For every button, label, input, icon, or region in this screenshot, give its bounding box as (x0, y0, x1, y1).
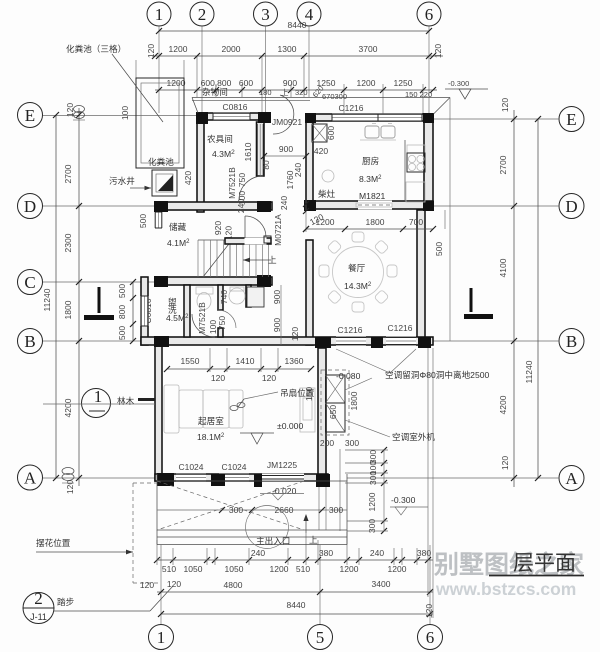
svg-text:8440: 8440 (288, 20, 307, 30)
level -0.300 top right (445, 79, 488, 99)
kitchen counter right with stove (405, 140, 425, 202)
svg-text:420: 420 (314, 146, 328, 156)
wall washroom partition 1 (184, 285, 190, 337)
wall B-axis with windows C1216 x2 (141, 337, 433, 346)
axis line A horizontal (43, 477, 559, 479)
wall chunk left of JM1225 (254, 474, 262, 487)
svg-text:300: 300 (345, 438, 359, 448)
washbasin circle (229, 287, 245, 304)
dim line corridor x306 (303, 200, 325, 232)
svg-text:120: 120 (65, 480, 75, 494)
svg-text:380: 380 (319, 548, 333, 558)
svg-text:B: B (566, 332, 577, 351)
wall C-axis (155, 277, 272, 285)
axis bubble A left (18, 465, 43, 490)
level mark 0.000 living (240, 421, 303, 444)
title first floor plan (489, 551, 584, 576)
svg-text:670300: 670300 (322, 92, 347, 101)
axis bubble 6 bottom (418, 625, 443, 650)
porch outline (157, 474, 347, 530)
flower bed dashed area (133, 483, 161, 583)
label flower position with arrow (36, 537, 133, 554)
svg-text:JM0921: JM0921 (272, 117, 303, 127)
wall washroom partition 3 (246, 285, 251, 307)
svg-text:600: 600 (326, 126, 336, 140)
svg-text:6: 6 (425, 5, 434, 24)
svg-text:-0.300: -0.300 (391, 495, 416, 505)
svg-text:500: 500 (117, 326, 127, 340)
svg-text:J-11: J-11 (30, 612, 47, 622)
label AC hole (385, 369, 490, 380)
septic tank (112, 54, 184, 168)
dim row 8440 bottom (158, 600, 434, 618)
axis bubble 1 bottom (149, 625, 174, 650)
axis bubble C left (18, 270, 43, 295)
svg-text:300: 300 (368, 471, 378, 485)
svg-text:3400: 3400 (372, 579, 391, 589)
dim chain right floors (498, 98, 517, 487)
column B dining-left (315, 337, 331, 348)
svg-text:1200: 1200 (388, 564, 407, 574)
svg-text:500: 500 (117, 284, 127, 298)
svg-text:2: 2 (198, 5, 207, 24)
stair up arrow (243, 255, 277, 265)
kitchen sink (360, 124, 396, 141)
svg-text:240: 240 (370, 548, 384, 558)
svg-text:化粪池（三格）: 化粪池（三格） (66, 43, 126, 54)
downpipe symbol A (62, 468, 74, 484)
right step lines (347, 521, 388, 531)
steps leader line (54, 586, 173, 611)
svg-text:4800: 4800 (224, 580, 243, 590)
svg-text:-0.300: -0.300 (448, 79, 469, 88)
svg-text:A: A (565, 469, 578, 488)
svg-text:D: D (24, 197, 36, 216)
AC dashed surround (321, 370, 349, 435)
svg-text:100: 100 (208, 320, 218, 334)
apron line around building top (192, 98, 450, 342)
stair enclosure wall with door M0721A (225, 216, 271, 245)
svg-text:C1024: C1024 (178, 462, 203, 472)
washroom door arc (192, 314, 215, 337)
AC hole mark left wall (138, 398, 155, 401)
axis bubble D right (559, 194, 584, 219)
column C axis3 (257, 275, 271, 287)
svg-text:320: 320 (295, 88, 308, 97)
svg-text:层平面: 层平面 (513, 551, 576, 575)
svg-text:1610: 1610 (243, 142, 253, 161)
svg-text:1: 1 (155, 5, 164, 24)
shower cabinet box (247, 287, 264, 307)
axis bubble 6 top (417, 2, 441, 26)
wall dining right (417, 210, 425, 341)
dim row 4800 3400 (157, 579, 433, 595)
dim chain left 500 800 500 (117, 279, 136, 344)
svg-text:3: 3 (261, 5, 270, 24)
svg-text:5: 5 (316, 628, 325, 647)
wall kitchen right (424, 114, 433, 210)
downpipe symbol E (73, 106, 85, 121)
svg-text:800: 800 (117, 305, 127, 319)
svg-text:380: 380 (417, 548, 431, 558)
svg-text:-0.080: -0.080 (336, 371, 361, 381)
septic extension verticals (136, 60, 184, 78)
column A left (157, 473, 174, 486)
toilet cell fixtures (196, 287, 213, 310)
axis line 1 vertical (159, 26, 161, 624)
svg-text:1360: 1360 (285, 356, 304, 366)
svg-text:2700: 2700 (498, 155, 508, 174)
svg-text:1300: 1300 (278, 44, 297, 54)
svg-text:空调留洞Φ80洞中离地2500: 空调留洞Φ80洞中离地2500 (385, 369, 490, 380)
axis bubble E right (559, 107, 584, 132)
svg-text:农具间: 农具间 (207, 133, 233, 144)
dim 750 100 toolroom door vertical (237, 173, 247, 205)
column D kitchen-right (423, 201, 434, 211)
svg-text:污水井: 污水井 (109, 175, 135, 186)
svg-text:JM1225: JM1225 (267, 460, 298, 470)
AC outdoor units (326, 375, 346, 432)
svg-text:120: 120 (500, 98, 510, 112)
svg-text:300: 300 (229, 505, 243, 515)
svg-text:踏步: 踏步 (57, 596, 75, 607)
svg-text:120: 120 (262, 373, 276, 383)
axis line 3 vertical (265, 26, 267, 112)
extension verticals bottom comb (157, 348, 433, 618)
svg-text:C1216: C1216 (387, 323, 412, 333)
window storage west wall (155, 212, 163, 228)
wall washroom left bump with window C0816 (141, 277, 149, 345)
sewage well (130, 170, 177, 196)
svg-text:-0.020: -0.020 (272, 486, 297, 496)
svg-text:240: 240 (279, 196, 289, 210)
porch steps (157, 530, 347, 545)
svg-text:林木: 林木 (117, 395, 135, 406)
svg-text:600: 600 (239, 78, 253, 88)
svg-text:120: 120 (167, 579, 181, 589)
wall toolroom right window (257, 122, 265, 176)
svg-text:A: A (24, 469, 37, 488)
svg-text:2300: 2300 (63, 233, 73, 252)
svg-text:750: 750 (217, 316, 227, 330)
detail circle 1 living wall (43, 387, 155, 418)
axis bubble 1 top (147, 2, 171, 26)
dim text 670300 (311, 84, 347, 101)
svg-text:杂物间: 杂物间 (202, 86, 228, 97)
svg-text:M0721A: M0721A (273, 214, 283, 246)
svg-text:8440: 8440 (287, 600, 306, 610)
svg-text:1800: 1800 (349, 391, 359, 410)
svg-text:4200: 4200 (63, 398, 73, 417)
dim line 11240 left (42, 112, 59, 481)
room label washroom (166, 296, 189, 323)
dim porch 300 2660 300 (157, 505, 347, 515)
svg-text:M7521B: M7521B (197, 302, 207, 334)
svg-text:120: 120 (500, 456, 510, 470)
door arc JM0921 canopy (273, 95, 294, 134)
dim text 150 220 (405, 90, 432, 99)
axis bubble 5 bottom (308, 625, 333, 650)
dim line 8440 top (156, 20, 432, 34)
svg-text:±0.000: ±0.000 (277, 421, 303, 431)
svg-text:C0816: C0816 (222, 102, 247, 112)
axis bubble A right (559, 466, 584, 491)
level -0.300 bottom right (390, 495, 428, 515)
svg-text:500: 500 (138, 214, 148, 228)
comb verticals top rows (197, 56, 423, 114)
axis bubble 4 top (297, 2, 321, 26)
axis line E horizontal (43, 116, 559, 120)
wall living right (318, 348, 326, 478)
toilet door arc (218, 310, 236, 328)
svg-text:2700: 2700 (63, 164, 73, 183)
svg-text:6: 6 (426, 628, 435, 647)
section mark 1 right (464, 288, 493, 319)
svg-text:化粪池: 化粪池 (148, 156, 174, 167)
dining table round (319, 232, 397, 312)
svg-text:1250: 1250 (394, 78, 413, 88)
svg-text:储藏: 储藏 (169, 221, 187, 232)
svg-text:2: 2 (34, 589, 43, 608)
wall A-axis with windows C1024 x2 and door JM1225 (155, 474, 328, 482)
window label C0816 left wall (143, 298, 153, 323)
axis bubble E left (18, 103, 43, 128)
svg-text:1: 1 (157, 628, 166, 647)
svg-text:900: 900 (272, 318, 282, 332)
room label kitchen (359, 155, 385, 201)
svg-text:120: 120 (424, 604, 434, 618)
svg-text:1200: 1200 (169, 44, 188, 54)
axis bubble D left (18, 194, 43, 219)
svg-text:1200: 1200 (357, 78, 376, 88)
stairs (198, 240, 269, 277)
wall washroom partition 2 (218, 285, 223, 337)
svg-text:120: 120 (140, 580, 154, 590)
svg-text:1200: 1200 (367, 492, 377, 511)
wall toolroom left (197, 113, 204, 212)
dim comb row bottom small (154, 548, 433, 574)
sofa group living (164, 385, 243, 433)
svg-text:510: 510 (162, 564, 176, 574)
svg-text:300: 300 (329, 505, 343, 515)
svg-text:C: C (24, 273, 35, 292)
AC leader lines (336, 349, 416, 437)
axis bubble 3 top (254, 2, 278, 26)
dim line 11240 right (524, 116, 541, 481)
column D kitchen-left (304, 200, 316, 211)
dim row1 top (146, 44, 443, 59)
column C axis1 (154, 276, 168, 287)
svg-text:D: D (565, 197, 577, 216)
column B mid (371, 337, 383, 348)
svg-text:900: 900 (279, 144, 293, 154)
room label storage (167, 221, 190, 248)
svg-text:M7521B: M7521B (227, 167, 237, 199)
svg-text:80: 80 (261, 160, 271, 170)
axis line 4 vertical (308, 26, 310, 97)
kitchen water box (312, 124, 327, 142)
column B axis1 (154, 336, 169, 347)
column axis3 top (258, 112, 271, 123)
column kitchen TR (423, 113, 434, 123)
svg-text:E: E (566, 110, 576, 129)
axis bubble B left (18, 329, 43, 354)
wall kitchen top with window C1216 (306, 114, 433, 122)
tv cabinet living (300, 388, 315, 432)
svg-text:B: B (24, 332, 35, 351)
wall kitchen left (306, 114, 313, 209)
label zawujian (202, 86, 228, 97)
svg-text:摆花位置: 摆花位置 (36, 537, 71, 548)
svg-text:2000: 2000 (222, 44, 241, 54)
svg-text:900: 900 (272, 290, 282, 304)
svg-text:1410: 1410 (236, 356, 255, 366)
svg-text:900: 900 (283, 78, 297, 88)
column toolroom TL (196, 112, 208, 124)
entrance detail circle (246, 506, 289, 549)
column B dining-right (418, 337, 431, 348)
axis bubble 2 top (190, 2, 214, 26)
svg-text:上: 上 (309, 535, 318, 545)
svg-text:1550: 1550 (181, 356, 200, 366)
room label toolroom (207, 133, 235, 159)
svg-text:1800: 1800 (366, 217, 385, 227)
svg-text:240: 240 (236, 199, 246, 213)
svg-text:200: 200 (320, 438, 334, 448)
dim chain left floors (63, 103, 82, 494)
dim 900 corridor (261, 144, 309, 159)
svg-text:100: 100 (120, 106, 130, 120)
wall dining left (306, 240, 313, 345)
porch cross dashed (157, 481, 304, 530)
svg-text:420: 420 (183, 171, 193, 185)
svg-text:4100: 4100 (498, 258, 508, 277)
svg-text:上: 上 (268, 255, 277, 265)
wall toolroom top with window (197, 113, 270, 121)
dim 200 300 AC (320, 438, 359, 448)
dim row dining top 1200 1800 700 (303, 217, 436, 232)
dim row2 top (155, 78, 437, 93)
column A mid (211, 474, 225, 486)
column A right corner (316, 474, 330, 487)
svg-text:1200: 1200 (316, 217, 335, 227)
room label dining (344, 263, 372, 291)
svg-text:700: 700 (409, 217, 423, 227)
svg-text:M1821: M1821 (359, 191, 385, 201)
svg-text:厨房: 厨房 (362, 155, 379, 166)
dim 500 dining right (434, 210, 445, 256)
detail circle 2 J-11 (23, 589, 54, 624)
svg-text:C1216: C1216 (337, 325, 362, 335)
svg-text:1200: 1200 (270, 564, 289, 574)
ceiling fan symbol (230, 392, 278, 411)
svg-text:1200: 1200 (340, 564, 359, 574)
svg-text:E: E (25, 106, 35, 125)
porch wall extension lines (319, 487, 326, 530)
svg-text:650: 650 (328, 405, 338, 419)
svg-text:空调室外机: 空调室外机 (392, 431, 435, 442)
svg-text:柴灶: 柴灶 (318, 188, 336, 199)
entrance arrow (303, 514, 318, 545)
axis line B horizontal (43, 340, 559, 342)
svg-text:500: 500 (434, 242, 444, 256)
svg-text:18.1M2: 18.1M2 (197, 432, 225, 442)
svg-text:240: 240 (251, 548, 265, 558)
svg-text:14.3M2: 14.3M2 (344, 281, 372, 291)
wall kitchen bottom D with door opening M1821 (306, 201, 433, 210)
svg-text:起居室: 起居室 (198, 415, 224, 426)
column kitchen TL (305, 113, 316, 123)
wall D-axis left section (155, 202, 272, 210)
column D axis1 (154, 201, 168, 212)
room label living (197, 415, 225, 442)
svg-text:120: 120 (146, 44, 156, 58)
svg-text:120: 120 (433, 44, 443, 58)
svg-text:主出入口: 主出入口 (256, 535, 290, 546)
svg-text:11240: 11240 (42, 288, 52, 311)
wood stove circle (322, 170, 334, 182)
svg-text:510: 510 (296, 564, 310, 574)
svg-text:C1024: C1024 (221, 462, 246, 472)
dim chain right terrace vertical (340, 447, 388, 534)
svg-text:餐厅: 餐厅 (348, 263, 366, 273)
svg-text:4200: 4200 (498, 395, 508, 414)
svg-text:120: 120 (290, 327, 300, 341)
svg-text:1050: 1050 (225, 564, 244, 574)
wall living left (155, 341, 162, 481)
svg-text:3700: 3700 (359, 44, 378, 54)
door M7521B toolroom opening arc (239, 176, 263, 200)
svg-text:240: 240 (293, 163, 303, 177)
dim row living 1550 1410 1360 (164, 348, 314, 383)
dim text 180 up 320 (259, 88, 308, 97)
svg-text:920: 920 (213, 221, 223, 235)
svg-text:C1216: C1216 (338, 103, 363, 113)
axis line 6 vertical (429, 26, 430, 624)
svg-text:1050: 1050 (184, 564, 203, 574)
svg-text:11240: 11240 (524, 360, 534, 383)
svg-text:www.bstzcs.com: www.bstzcs.com (435, 579, 576, 599)
svg-text:750: 750 (237, 173, 247, 187)
section mark 1 left (84, 287, 114, 320)
axis line C horizontal (43, 281, 155, 283)
svg-text:740: 740 (219, 290, 229, 304)
dims 900 900 120 right of washroom (272, 285, 282, 345)
axis line D horizontal (43, 205, 559, 207)
column D axis3 (257, 201, 271, 212)
axis bubble B right (559, 329, 584, 354)
svg-text:180: 180 (259, 88, 272, 97)
svg-text:120: 120 (211, 373, 225, 383)
svg-text:150: 150 (304, 387, 314, 401)
axis line 2 vertical (201, 26, 203, 113)
svg-text:1800: 1800 (63, 300, 73, 319)
axis line 5 vertical bottom (319, 545, 321, 624)
svg-text:1: 1 (94, 387, 103, 406)
